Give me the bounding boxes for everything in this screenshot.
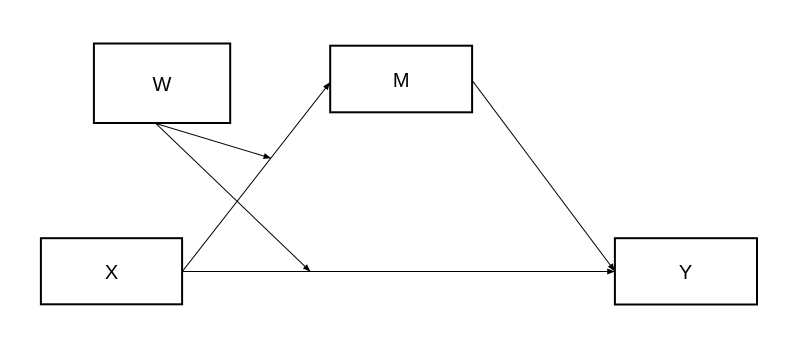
- box M: [330, 46, 472, 113]
- box W: [94, 44, 230, 124]
- svg-text:W: W: [153, 74, 172, 96]
- wire M to Y (b path): [472, 80, 615, 271]
- box Y: [615, 238, 757, 304]
- svg-text:X: X: [105, 262, 118, 284]
- wire W to a-path (moderation arrow): [156, 124, 271, 159]
- wire X to M (a path): [183, 82, 331, 271]
- svg-text:M: M: [393, 70, 410, 92]
- svg-text:Y: Y: [679, 262, 692, 284]
- box X: [41, 238, 182, 304]
- wire W to c-path (moderation arrow): [156, 124, 310, 272]
- wire X to Y (c path): [183, 271, 615, 273]
